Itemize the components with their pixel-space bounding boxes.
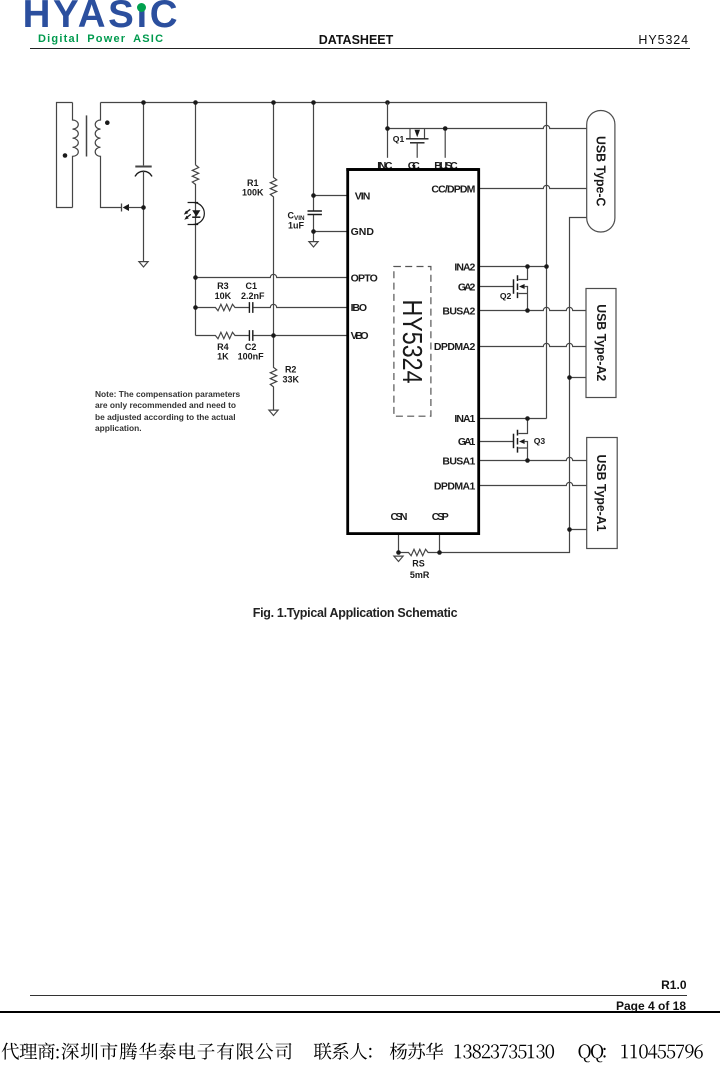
connector USB Type-A1 — [587, 438, 618, 549]
optocoupler U2 LED cathode bar — [192, 216, 200, 218]
node A2 stub junction — [567, 375, 572, 380]
capacitor CVIN lead — [313, 103, 315, 242]
wire bulk cap to ground — [143, 171, 145, 261]
wire GND — [314, 231, 348, 233]
bulk capacitor lead — [143, 103, 145, 166]
transistor Q3 arrow — [519, 439, 525, 444]
wire C1 to IBO pin — [253, 304, 347, 307]
wire USB-A2 VBUS stub — [570, 377, 587, 379]
IC bottom pin labels — [391, 511, 449, 523]
transistor Q2 gate bar — [513, 279, 515, 294]
logo HYASiC — [23, 0, 181, 37]
transistor Q3 source lead — [519, 442, 528, 461]
node rail cap junction — [141, 100, 146, 105]
wire OPTO — [196, 274, 348, 277]
wire INA1 — [479, 418, 547, 420]
capacitor C2 plates — [249, 330, 252, 341]
transistor Q2 arrow — [519, 284, 525, 289]
ground symbol bulk cap — [139, 262, 148, 267]
bulk capacitor curved plate — [135, 171, 152, 176]
node Q3 drain — [525, 416, 530, 421]
transformer T1 core — [86, 115, 88, 156]
footer rule — [30, 995, 687, 996]
IC top pin labels INC GC BUSC — [377, 160, 458, 172]
transistor Q3 gate bar — [513, 434, 515, 449]
node Q3 source — [525, 458, 530, 463]
diode D1 cathode bar — [121, 204, 123, 212]
wire INA2 — [479, 266, 547, 268]
node Q2 source — [525, 308, 530, 313]
ground symbol CSN — [394, 556, 403, 561]
node A1 stub junction — [567, 527, 572, 532]
node rail CVIN junction — [311, 100, 316, 105]
wire USB-C VBUS return — [440, 218, 587, 553]
transistor Q2 source lead — [519, 287, 528, 311]
wire CC/DPDM — [479, 185, 587, 188]
transformer T1 secondary winding — [95, 103, 121, 208]
wire diode to bulk cap node — [129, 207, 144, 209]
footer thick bar — [0, 1011, 720, 1014]
node OPTO junction — [193, 275, 198, 280]
wire BUSA1 — [479, 457, 587, 460]
node CSP junction — [437, 550, 442, 555]
transistor Q1 wire INC to BUSC — [388, 125, 587, 128]
IC top border redraw — [346, 168, 479, 171]
caption — [0, 606, 710, 620]
capacitor C1 plates — [249, 302, 252, 313]
transformer T1 primary winding — [73, 103, 79, 208]
wire BUSA2 — [479, 307, 586, 310]
transistor Q3 drain lead — [519, 419, 528, 434]
resistor R1 — [270, 103, 276, 336]
optocoupler U2 body arc — [188, 203, 205, 225]
wire VIN — [314, 195, 348, 197]
node rail R1 junction — [271, 100, 276, 105]
IC inner dashed box — [394, 267, 431, 417]
resistor RS — [399, 549, 440, 555]
IC left pin labels — [351, 191, 378, 343]
wire CSN vertical — [398, 523, 400, 552]
resistor optocoupler series — [192, 165, 198, 185]
transistor Q1 gate bar — [410, 142, 425, 144]
optocoupler U2 light arrow 2 — [184, 214, 191, 219]
node INA2 rail junction — [544, 264, 549, 269]
optocoupler U2 light arrow 1 — [184, 209, 191, 214]
wire USB-A1 VBUS stub — [570, 529, 587, 531]
ground symbol CVIN — [309, 242, 318, 247]
bulk capacitor top plate — [135, 165, 151, 167]
transistor Q2 channel segments — [517, 275, 519, 298]
wire CSP vertical — [439, 523, 441, 552]
wire GA2 — [479, 286, 514, 288]
wire VBO with resistor R4 — [196, 332, 249, 338]
node CVIN GND junction — [311, 229, 316, 234]
connector USB Type-A2 — [586, 289, 616, 398]
transistor Q1 arrow — [415, 130, 421, 138]
header part number — [638, 33, 689, 47]
footer revision — [661, 978, 686, 992]
connector USB Type-C — [587, 111, 615, 233]
node Q1 source BUSC — [443, 126, 448, 131]
transistor Q1 source drain stubs — [410, 129, 425, 139]
component value labels — [215, 178, 430, 580]
transistor Q1 channel bar — [406, 138, 429, 140]
wire GC gate lead — [416, 143, 418, 158]
wire GA1 — [479, 441, 514, 443]
node Q2 drain — [525, 264, 530, 269]
header rule — [30, 48, 690, 49]
resistor R2 — [270, 336, 276, 411]
header DATASHEET — [0, 33, 712, 47]
transformer T1 primary phase dot — [63, 153, 68, 158]
node CVIN VIN junction — [311, 193, 316, 198]
footer page number — [616, 999, 686, 1013]
node diode output junction — [141, 205, 146, 210]
wire C2 to VBO pin — [253, 335, 347, 337]
transistor Q3 channel segments — [517, 430, 519, 453]
wire top VBUS rail — [101, 103, 547, 419]
wire IBO with resistor R3 — [196, 304, 249, 310]
node rail opto junction — [193, 100, 198, 105]
node VBO R1 R2 junction — [271, 333, 276, 338]
capacitor CVIN plates — [308, 211, 322, 215]
transistor Q2 drain lead — [519, 267, 528, 280]
node rail INC junction — [385, 100, 390, 105]
logo tagline — [38, 33, 164, 45]
op-amp U1 HY5324 IC body — [348, 170, 479, 534]
wire INC vertical — [387, 103, 389, 158]
transformer T1 primary loop — [57, 103, 73, 208]
wire DPDMA2 — [479, 343, 586, 346]
wire optocoupler branch — [195, 103, 197, 336]
IC right pin labels — [431, 184, 475, 493]
wire DPDMA1 — [479, 482, 587, 485]
ground symbol R2 — [269, 410, 278, 415]
note text — [95, 389, 245, 435]
optocoupler U2 LED triangle — [192, 210, 200, 216]
transformer T1 secondary phase dot — [105, 120, 110, 125]
node Q1 drain INC — [385, 126, 390, 131]
wire BUSC vertical — [444, 129, 446, 158]
node CSN junction — [396, 550, 401, 555]
diode D1 triangle — [123, 204, 129, 211]
node IBO junction — [193, 305, 198, 310]
